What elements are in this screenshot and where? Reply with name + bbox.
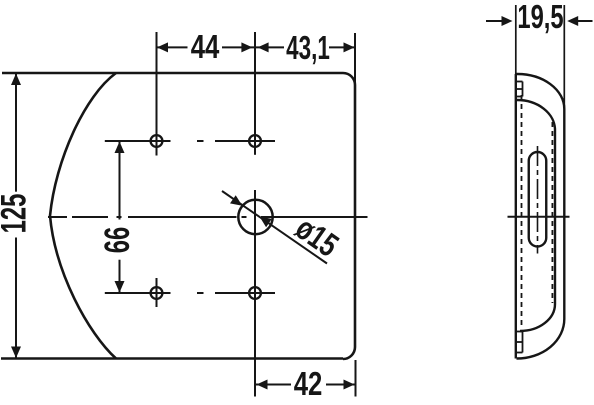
- svg-text:43,1: 43,1: [286, 29, 330, 66]
- svg-text:44: 44: [191, 29, 220, 66]
- svg-text:125: 125: [0, 194, 34, 234]
- svg-text:19,5: 19,5: [517, 0, 563, 36]
- svg-text:66: 66: [99, 227, 138, 253]
- svg-text:42: 42: [294, 366, 323, 400]
